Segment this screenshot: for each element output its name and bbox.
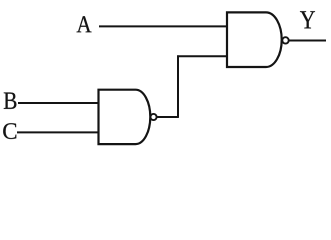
nand gate U2 body (inputs B,C) bbox=[99, 90, 151, 144]
label B bbox=[4, 93, 17, 109]
nand gate U1 body (inputs A and U2 output) bbox=[227, 12, 282, 67]
wire B input bbox=[18, 102, 99, 104]
wire riser to U1 second input bbox=[177, 55, 227, 57]
wire riser vertical bbox=[177, 55, 179, 118]
label Y bbox=[300, 11, 315, 28]
wire Y output bbox=[289, 40, 326, 42]
nand gate U1 output bubble bbox=[282, 37, 288, 43]
wire A input bbox=[99, 25, 227, 27]
wire C input bbox=[17, 131, 99, 133]
label A bbox=[77, 16, 92, 32]
label C bbox=[3, 123, 16, 139]
wire U2 output to riser bbox=[157, 116, 178, 118]
nand gate U2 output bubble bbox=[150, 114, 156, 120]
